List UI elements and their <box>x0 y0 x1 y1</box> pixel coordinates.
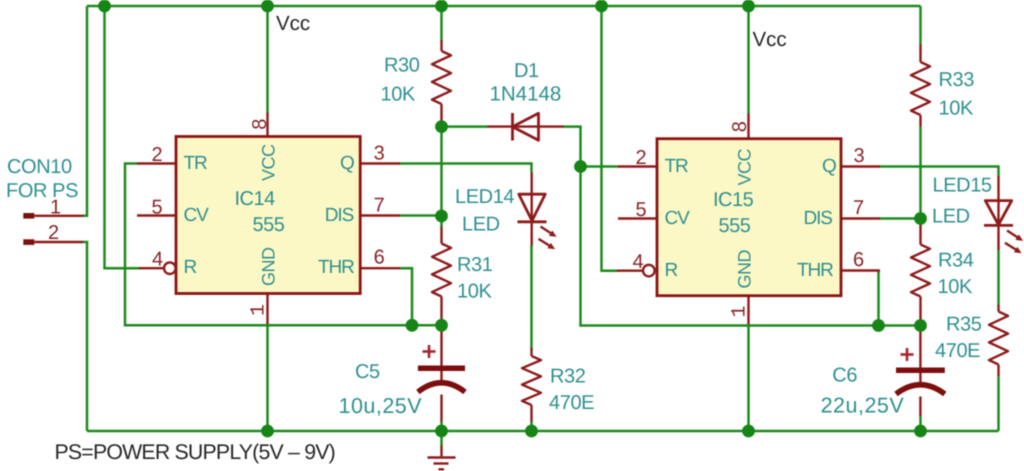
svg-text:4: 4 <box>152 248 163 270</box>
svg-text:D1: D1 <box>514 60 539 82</box>
svg-text:R34: R34 <box>938 250 974 272</box>
svg-text:2: 2 <box>48 222 59 244</box>
svg-text:1: 1 <box>248 304 271 316</box>
svg-text:6: 6 <box>374 247 385 269</box>
svg-text:R30: R30 <box>384 55 420 77</box>
svg-text:10K: 10K <box>939 98 974 120</box>
svg-text:470E: 470E <box>935 340 980 362</box>
svg-text:GND: GND <box>735 250 755 289</box>
svg-text:GND: GND <box>259 247 279 286</box>
svg-text:PS=POWER SUPPLY(5V – 9V): PS=POWER SUPPLY(5V – 9V) <box>55 440 335 464</box>
svg-text:5: 5 <box>152 196 163 218</box>
svg-text:C6: C6 <box>832 365 857 387</box>
svg-text:TR: TR <box>184 153 208 174</box>
svg-text:22u,25V: 22u,25V <box>821 394 905 418</box>
svg-text:CV: CV <box>184 205 210 226</box>
svg-text:R32: R32 <box>550 366 586 388</box>
svg-text:7: 7 <box>853 197 864 219</box>
svg-text:IC15: IC15 <box>713 189 754 211</box>
svg-text:5: 5 <box>636 199 647 221</box>
svg-text:Vcc: Vcc <box>276 12 310 35</box>
svg-text:R: R <box>184 257 197 278</box>
svg-text:10K: 10K <box>938 276 973 298</box>
svg-text:4: 4 <box>633 251 644 273</box>
svg-text:LED: LED <box>932 206 970 228</box>
svg-text:VCC: VCC <box>735 148 755 185</box>
svg-text:2: 2 <box>152 144 163 166</box>
svg-text:8: 8 <box>249 119 271 130</box>
svg-text:Q: Q <box>822 156 836 177</box>
svg-text:LED15: LED15 <box>933 175 992 197</box>
svg-text:1N4148: 1N4148 <box>490 83 562 106</box>
svg-text:R31: R31 <box>457 254 493 276</box>
svg-text:10K: 10K <box>381 84 416 106</box>
svg-text:3: 3 <box>374 143 385 165</box>
svg-text:10K: 10K <box>457 281 492 303</box>
svg-text:LED14: LED14 <box>455 186 514 208</box>
svg-text:DIS: DIS <box>804 208 833 229</box>
svg-text:Vcc: Vcc <box>753 28 787 51</box>
svg-text:6: 6 <box>853 249 864 271</box>
svg-text:R35: R35 <box>946 314 982 336</box>
svg-text:IC14: IC14 <box>235 188 276 210</box>
svg-text:8: 8 <box>729 121 751 132</box>
svg-text:Q: Q <box>340 153 354 174</box>
svg-text:FOR PS: FOR PS <box>6 180 78 202</box>
svg-text:7: 7 <box>374 195 385 217</box>
svg-text:R: R <box>665 260 678 281</box>
svg-text:DIS: DIS <box>325 205 354 226</box>
svg-text:1: 1 <box>729 305 752 317</box>
svg-text:THR: THR <box>318 257 354 278</box>
svg-text:R33: R33 <box>939 69 975 91</box>
svg-text:CON10: CON10 <box>7 156 72 178</box>
svg-text:1: 1 <box>50 196 61 218</box>
svg-text:CV: CV <box>665 208 691 229</box>
svg-text:555: 555 <box>253 214 285 236</box>
svg-text:THR: THR <box>797 260 833 281</box>
svg-text:LED: LED <box>462 214 500 236</box>
svg-text:555: 555 <box>719 215 751 237</box>
svg-text:2: 2 <box>636 147 647 169</box>
svg-text:10u,25V: 10u,25V <box>339 394 423 418</box>
svg-text:TR: TR <box>665 156 689 177</box>
svg-text:C5: C5 <box>355 361 380 383</box>
svg-text:VCC: VCC <box>259 144 279 181</box>
svg-text:470E: 470E <box>549 392 594 414</box>
svg-text:3: 3 <box>854 145 865 167</box>
